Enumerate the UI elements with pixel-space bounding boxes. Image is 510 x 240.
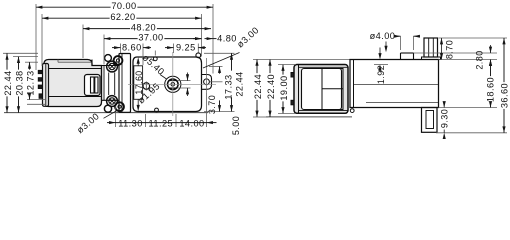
svg-text:48.20: 48.20 (131, 22, 156, 32)
svg-text:22.44: 22.44 (3, 70, 13, 95)
svg-text:70.00: 70.00 (111, 1, 136, 11)
gearbox side tab with hole (202, 58, 212, 93)
motor M1 left-view terminal tabs (38, 70, 44, 98)
motor M1 brush cap (85, 75, 101, 96)
mounting post hole top (small) (105, 55, 112, 62)
svg-text:22.44: 22.44 (253, 74, 263, 99)
wire: baseline ground line (4, 112, 208, 114)
gearbox G1 left-view housing (92, 60, 119, 101)
svg-text:17.33: 17.33 (224, 74, 234, 99)
svg-text:17.60: 17.60 (134, 70, 144, 94)
boxed dimension 17.60 (134, 57, 144, 111)
motor M1 left-view end cap (43, 64, 49, 107)
extension lines center-right (204, 53, 235, 111)
dimension 8.60 (112, 43, 151, 53)
svg-text:22.44: 22.44 (235, 71, 245, 96)
gearbox G1 face plate outline (133, 57, 202, 112)
svg-text:20.38: 20.38 (15, 70, 25, 95)
svg-text:12.73: 12.73 (26, 70, 36, 95)
mounting post ring top (114, 56, 123, 65)
dimension 70.00 (36, 1, 213, 11)
shaft centerline vertical (172, 52, 174, 116)
dimension 5.00 (207, 116, 242, 135)
motor M1 left-view body outline (44, 60, 102, 107)
corner hole top-right (196, 53, 201, 58)
svg-text:11.25: 11.25 (149, 119, 174, 129)
motor M1 end-view inner frame (302, 69, 344, 110)
dimension 22.44 center-right (230, 53, 245, 111)
svg-text:9.30: 9.30 (439, 109, 449, 128)
mounting post ring bottom (115, 102, 124, 111)
dimension 14.00 (176, 119, 207, 129)
wire: baseline right group (266, 116, 352, 118)
shaft centerline horizontal (128, 83, 216, 85)
extension lines top group (36, 4, 213, 74)
dimension 9.25 (165, 43, 206, 53)
dimension 9.30 (439, 101, 449, 139)
svg-text:14.00: 14.00 (179, 119, 204, 129)
dimension 19.00 right group (279, 65, 289, 114)
dimension 12.73 left (26, 62, 36, 99)
dimension 8.70 (440, 38, 455, 60)
label ø4.00 with leader and arrows (370, 31, 420, 52)
dimension 48.20 (83, 22, 211, 32)
dimension 22.44 right group (253, 59, 263, 117)
dimension 3.70 (177, 73, 217, 115)
svg-text:36.60: 36.60 (500, 83, 510, 108)
dimension 11.25 (146, 119, 177, 129)
gearbox G1 face plate (left view) (119, 54, 131, 113)
svg-text:ø4.00: ø4.00 (370, 31, 396, 41)
dimension 20.38 left (15, 57, 25, 113)
extension lines right-group left (253, 59, 350, 117)
dimension 17.33 (218, 67, 234, 112)
extension lines left group (3, 53, 45, 104)
label ø5.40 with leader (141, 52, 167, 79)
output shaft hub ø5.40 (165, 76, 181, 92)
svg-text:18.60: 18.60 (486, 77, 496, 102)
svg-text:8.60: 8.60 (122, 43, 142, 53)
motor M1 end-view can outline (294, 65, 348, 114)
svg-text:5.00: 5.00 (231, 116, 241, 135)
mounting post hole bottom (small) (104, 105, 111, 112)
svg-text:62.20: 62.20 (110, 12, 135, 22)
motor M1 end-view strap tabs (291, 73, 295, 105)
svg-text:11.30: 11.30 (118, 119, 143, 129)
svg-text:1.92: 1.92 (376, 65, 386, 84)
screw hole top ø3.00 (107, 61, 118, 72)
dimension 18.60 (486, 60, 496, 108)
svg-text:19.00: 19.00 (279, 75, 289, 100)
dimension 36.60 (500, 38, 510, 133)
mounting post cylinders (left view) (109, 73, 115, 96)
extension lines right column (414, 38, 508, 133)
dimension 22.44 left (3, 53, 13, 112)
svg-text:37.00: 37.00 (138, 32, 163, 42)
label ø1.95 with leader (136, 81, 162, 106)
output shaft bottom (double-D) (422, 108, 438, 133)
dimension 2.80 (475, 45, 492, 70)
case screw hole top edge (153, 51, 157, 61)
bearing boss ø4.00 (401, 53, 414, 60)
dimension 4.80 (193, 34, 237, 44)
svg-text:3.70: 3.70 (207, 95, 217, 114)
screw hole bottom ø3.00 (107, 96, 118, 107)
label ø3.00 top-right with leader (203, 25, 261, 68)
dimension 1.92 (374, 48, 388, 85)
case screw hole bottom edge (155, 108, 159, 112)
gearbox G1 top-view body (350, 60, 439, 113)
pin hole ø1.95 (143, 82, 150, 91)
output shaft top (double-D) (422, 38, 441, 60)
dimension 11.30 (107, 119, 146, 129)
label ø3.00 bottom-left with leader (75, 111, 117, 136)
extension lines bottom group (116, 93, 207, 127)
svg-text:9.25: 9.25 (176, 43, 196, 53)
svg-text:8.70: 8.70 (445, 40, 455, 59)
dimension 22.40 right group (266, 59, 276, 117)
svg-text:22.40: 22.40 (266, 74, 276, 99)
dimension 62.20 (42, 12, 202, 22)
dimension 37.00 (104, 32, 202, 42)
svg-text:2.80: 2.80 (475, 50, 485, 69)
